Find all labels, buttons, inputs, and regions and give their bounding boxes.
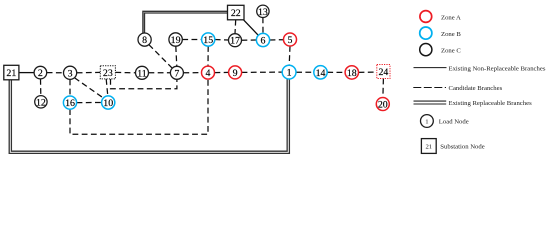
load node 14 (zone B) bbox=[314, 66, 327, 79]
load node 10 (zone B) bbox=[102, 96, 115, 109]
wire branch 17-6 bbox=[242, 39, 257, 41]
svg-text:15: 15 bbox=[203, 35, 213, 46]
svg-text:6: 6 bbox=[261, 36, 266, 47]
wire branch 13-6 bbox=[262, 18, 264, 34]
svg-text:8: 8 bbox=[142, 35, 147, 46]
wire branch 23-10 bbox=[106, 79, 108, 96]
wire branch 22-6 (solid diagonal) bbox=[244, 20, 259, 36]
wire branch 1-14 bbox=[296, 71, 314, 73]
svg-text:4: 4 bbox=[206, 68, 211, 79]
load node 18 (zone A) bbox=[345, 66, 358, 79]
substation node 21 bbox=[4, 65, 19, 80]
load node 5 (zone A) bbox=[284, 33, 297, 46]
legend zone C symbol bbox=[420, 44, 462, 56]
wire branch 2-12 bbox=[40, 79, 42, 96]
wire branch 22-17 bbox=[234, 20, 237, 34]
svg-text:Existing Non-Replaceable Branc: Existing Non-Replaceable Branches bbox=[449, 65, 546, 72]
legend zone B symbol bbox=[420, 27, 462, 39]
svg-text:13: 13 bbox=[258, 7, 268, 18]
svg-text:Existing Replaceable Branches: Existing Replaceable Branches bbox=[449, 100, 533, 107]
load node 19 bbox=[169, 33, 182, 46]
wire branch 24-20 bbox=[382, 79, 385, 98]
legend load node bbox=[421, 115, 469, 128]
wire branch 14-18 bbox=[327, 71, 345, 73]
svg-text:Load Node: Load Node bbox=[439, 118, 469, 125]
svg-text:Candidate Branches: Candidate Branches bbox=[449, 85, 503, 92]
wire branch 15-17 bbox=[215, 39, 229, 42]
load node 2 bbox=[34, 66, 47, 79]
svg-text:1: 1 bbox=[287, 68, 292, 79]
legend zone A symbol bbox=[420, 11, 461, 23]
svg-text:22: 22 bbox=[231, 8, 241, 19]
wire branch 8-7 bbox=[149, 45, 173, 69]
load node 7 bbox=[170, 66, 183, 79]
wire branch 3-16 bbox=[69, 79, 71, 96]
load node 8 bbox=[138, 33, 151, 46]
wire branch 4-9 bbox=[215, 71, 229, 73]
svg-text:11: 11 bbox=[137, 68, 147, 79]
candidate branches (dashed) bbox=[41, 18, 384, 135]
svg-text:17: 17 bbox=[230, 36, 240, 47]
wire branch 16-4 (elbow) bbox=[70, 79, 208, 134]
wire branch 3-10 bbox=[75, 78, 104, 99]
svg-text:10: 10 bbox=[103, 98, 113, 109]
svg-text:23: 23 bbox=[103, 68, 113, 79]
svg-text:12: 12 bbox=[36, 97, 46, 108]
wire branch 5-1 bbox=[288, 46, 291, 65]
wire branch 19-15 bbox=[182, 39, 201, 41]
svg-text:21: 21 bbox=[6, 68, 16, 79]
wire branch 21-2 (solid) bbox=[19, 72, 34, 74]
wire branch 23-11 bbox=[115, 71, 135, 73]
legend existing replaceable branch bbox=[414, 100, 533, 107]
legend substation node bbox=[421, 139, 484, 154]
wire branch 9-1 bbox=[242, 71, 283, 73]
svg-text:16: 16 bbox=[65, 98, 75, 109]
svg-text:Zone A: Zone A bbox=[441, 14, 461, 21]
load node 16 (zone B) bbox=[63, 96, 76, 109]
svg-text:21: 21 bbox=[425, 143, 432, 150]
wire branch 2-3 bbox=[47, 72, 64, 74]
svg-text:Zone B: Zone B bbox=[441, 31, 461, 38]
candidate node 24 (red dotted square) bbox=[377, 65, 390, 79]
svg-text:1: 1 bbox=[425, 118, 428, 125]
load node 17 bbox=[229, 34, 242, 47]
load node 1 (zone B) bbox=[282, 65, 296, 79]
load node 11 bbox=[136, 66, 149, 79]
load node 12 bbox=[35, 96, 47, 109]
legend candidate branch bbox=[413, 85, 502, 92]
substation node 22 bbox=[228, 5, 245, 19]
svg-text:9: 9 bbox=[233, 68, 238, 79]
wire branch 6-5 bbox=[270, 39, 284, 41]
wire branch 22-8 (double replaceable) bbox=[143, 11, 228, 33]
svg-text:Substation Node: Substation Node bbox=[440, 143, 484, 150]
svg-text:24: 24 bbox=[378, 67, 388, 78]
wire branch 16-10 bbox=[77, 102, 102, 104]
svg-text:14: 14 bbox=[316, 68, 326, 79]
load node 20 (zone A) bbox=[376, 98, 389, 111]
load node 9 (zone A) bbox=[229, 66, 242, 79]
wire branch 19-7 bbox=[176, 46, 177, 66]
wire branch 15-4 bbox=[207, 46, 209, 66]
wire branch 23-7 (elbow) bbox=[111, 79, 177, 89]
wire branch 3-23 bbox=[77, 71, 101, 73]
load node 13 bbox=[257, 5, 269, 18]
load node 4 (zone A) bbox=[202, 66, 215, 79]
svg-text:19: 19 bbox=[171, 35, 181, 46]
svg-text:20: 20 bbox=[378, 100, 388, 111]
svg-text:2: 2 bbox=[38, 68, 43, 79]
svg-text:3: 3 bbox=[68, 68, 73, 79]
svg-text:Zone C: Zone C bbox=[441, 48, 461, 55]
wire branch 21-1 bottom loop (double replaceable) bbox=[9, 79, 289, 153]
load node 6 (zone B) bbox=[256, 33, 269, 46]
load node 3 bbox=[64, 66, 77, 79]
legend existing non-replaceable branch bbox=[414, 65, 546, 72]
svg-text:7: 7 bbox=[174, 68, 179, 79]
wire branch 18-24 bbox=[359, 71, 377, 73]
wire branch 7-4 bbox=[183, 72, 201, 74]
wire branch 11-7 bbox=[149, 72, 171, 74]
svg-text:5: 5 bbox=[288, 35, 293, 46]
svg-text:18: 18 bbox=[347, 68, 357, 79]
load node 15 (zone B) bbox=[202, 33, 215, 46]
candidate node 23 (dotted square) bbox=[100, 66, 115, 79]
